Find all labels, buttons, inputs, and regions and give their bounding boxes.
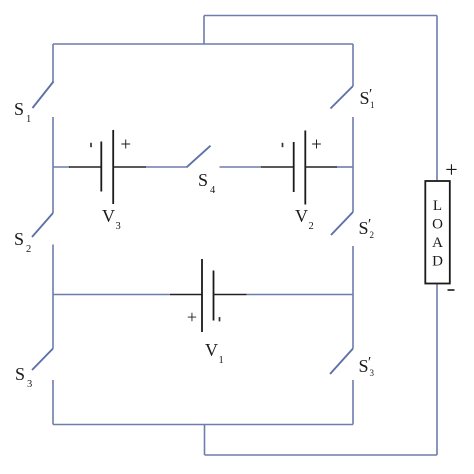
battery V3 short plate (negative) [100, 142, 102, 192]
battery V3 right lead [113, 166, 146, 168]
load terminal plus sign [445, 157, 457, 182]
svg-text:3: 3 [370, 368, 375, 378]
wire top inner horizontal [53, 43, 353, 45]
label S3 [15, 364, 32, 390]
battery V2 minus tick [282, 143, 284, 147]
svg-text:S: S [198, 170, 208, 190]
wire inner right rail S1' to row1 [352, 117, 354, 167]
wire row1 blue before S4 [146, 166, 187, 168]
switch S4 blade [187, 146, 211, 168]
label V2 [295, 206, 314, 232]
battery V2 short plate (negative) [293, 142, 295, 192]
label V1 [205, 340, 224, 366]
switch S1' blade [331, 86, 354, 109]
battery V2 plus sign [311, 135, 322, 156]
label S2' [359, 217, 375, 241]
wire inner right rail S2' to row2 [352, 246, 354, 295]
wire row1 left blue [53, 166, 70, 168]
wire left rail S2 to row2 [52, 245, 54, 295]
svg-text:2: 2 [26, 244, 31, 255]
battery V1 right lead [214, 294, 247, 296]
svg-text:V: V [102, 206, 115, 226]
switch S3 blade [32, 349, 53, 371]
label S4 [198, 170, 216, 196]
svg-text:2: 2 [370, 230, 375, 240]
svg-text:L: L [433, 198, 442, 214]
wire bottom stub vertical [204, 425, 206, 456]
wire left rail row1 to S2 [52, 167, 54, 213]
wire inner right rail row2 to S3' [352, 295, 354, 349]
battery V2 right lead [305, 166, 337, 168]
svg-text:+: + [311, 135, 322, 156]
svg-text:S: S [15, 364, 25, 384]
svg-text:V: V [205, 340, 218, 360]
label V3 [102, 206, 121, 232]
svg-text:S: S [359, 356, 369, 376]
wire top outer left stub vertical [203, 16, 205, 45]
svg-text:+: + [120, 135, 131, 156]
wire bottom outer horizontal [205, 454, 438, 456]
wire row2 right blue [247, 294, 354, 296]
svg-text:+: + [187, 307, 197, 327]
label S3' [359, 355, 375, 379]
switch S1 blade [33, 82, 54, 109]
svg-text:1: 1 [26, 114, 31, 125]
svg-text:S: S [359, 218, 369, 238]
svg-text:1: 1 [219, 355, 224, 366]
wire row1 right blue [337, 166, 353, 168]
svg-text:2: 2 [309, 221, 314, 232]
wire inner right rail S3' to bottom [352, 380, 354, 425]
battery V1 short plate (negative) [213, 271, 215, 321]
battery V1 plus sign [187, 307, 197, 327]
label S1' [360, 87, 375, 111]
battery V2 long plate (positive) [304, 131, 306, 205]
switch S2 blade [32, 213, 53, 237]
battery V1 minus tick [219, 317, 221, 321]
wire left rail segment S1 to row1 [52, 117, 54, 167]
wire left rail row2 to S3 [52, 295, 54, 349]
battery V3 left lead [69, 166, 101, 168]
svg-text:S: S [14, 99, 24, 119]
battery V1 left lead [170, 294, 202, 296]
wire outer right vertical upper (to LOAD +) [436, 16, 438, 182]
svg-text:S: S [360, 88, 370, 108]
svg-text:O: O [432, 217, 443, 233]
wire outer right vertical lower (from LOAD -) [436, 284, 438, 456]
wire top outer horizontal [204, 15, 437, 17]
label S1 [14, 99, 31, 125]
svg-text:D: D [432, 254, 443, 270]
battery V2 left lead [261, 166, 294, 168]
wire row1 blue after S4 [220, 166, 262, 168]
load terminal minus sign [448, 289, 455, 291]
svg-text:3: 3 [27, 379, 32, 390]
svg-text:A: A [432, 235, 443, 251]
wire inner right rail above S1' [352, 44, 354, 86]
battery V3 long plate (positive) [112, 130, 114, 204]
label S2 [14, 229, 31, 255]
switch S2' blade [331, 212, 353, 235]
battery V3 minus tick [90, 143, 92, 147]
switch S3' blade [330, 349, 353, 375]
svg-text:V: V [295, 206, 308, 226]
battery V1 long plate (positive) [201, 259, 203, 332]
battery V3 plus sign [120, 135, 131, 156]
wire row2 left blue [53, 294, 170, 296]
svg-text:S: S [14, 229, 24, 249]
load LOAD box [425, 181, 450, 284]
wire left rail S3 to bottom [52, 380, 54, 425]
svg-text:4: 4 [210, 185, 216, 196]
wire left rail segment above S1 [52, 44, 54, 82]
svg-text:3: 3 [116, 221, 121, 232]
wire bottom inner horizontal [53, 424, 353, 426]
svg-text:1: 1 [370, 100, 375, 110]
svg-text:+: + [445, 157, 457, 182]
wire inner right rail row1 to S2' [352, 167, 354, 212]
